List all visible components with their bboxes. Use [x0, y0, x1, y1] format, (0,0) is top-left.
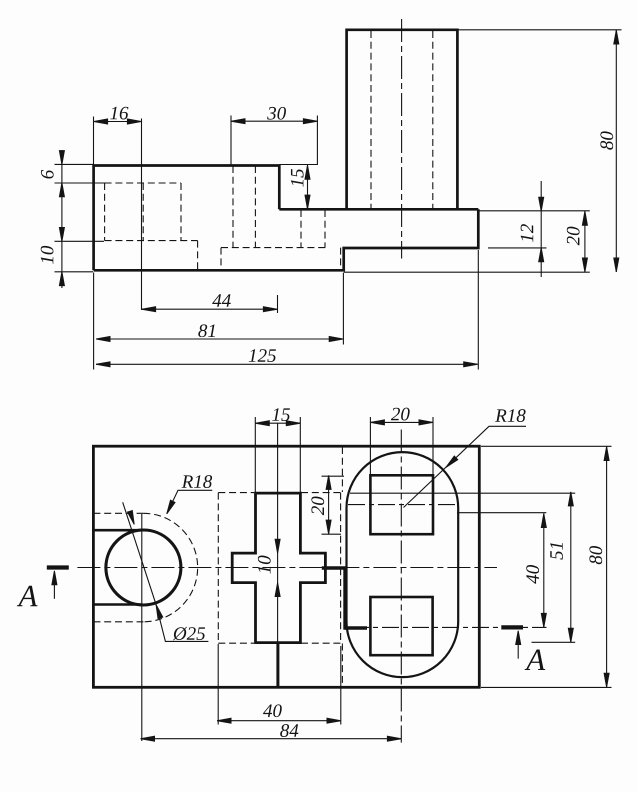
dim 10 arrows: [275, 539, 280, 553]
label 80 right: [600, 131, 613, 149]
section mark A left bar: [47, 565, 69, 569]
dim 80 plan line: [606, 446, 608, 687]
label R18 right: [495, 409, 525, 422]
label 44: [212, 294, 231, 307]
ext line 81 right: [342, 273, 344, 345]
ext line 30 right: [316, 116, 318, 166]
hidden line pocket right wall: [180, 183, 182, 241]
label 16: [110, 107, 128, 120]
front hidden pocket left dashed: [105, 31, 433, 270]
dim 51 line: [570, 492, 572, 643]
section bend vertical: [343, 568, 346, 630]
ext line left edge top: [93, 117, 95, 165]
hidden line step wall a: [300, 210, 302, 248]
hidden line pocket step: [197, 241, 199, 270]
ext 40 bottom left: [217, 644, 219, 725]
section bar 1: [322, 566, 347, 569]
label 51: [550, 543, 563, 560]
label 30: [267, 107, 286, 120]
ext line 81 125 left: [93, 273, 95, 370]
main horizontal centerline: [77, 567, 497, 569]
thin extension lines front: [55, 30, 622, 370]
ext line 6 top ref: [55, 163, 95, 165]
dimension 44: [142, 308, 278, 310]
plan outline: [93, 446, 479, 687]
ext line 6 bottom ref: [55, 182, 107, 184]
section mark A right bar: [501, 625, 523, 629]
hidden line column bore left: [370, 31, 372, 209]
obround vertical centerline: [400, 430, 402, 743]
dim 40 right line: [543, 513, 545, 627]
dim plan20 line: [328, 475, 330, 534]
ext 20 top right: [432, 417, 434, 475]
dimension 12: [540, 181, 542, 277]
circle dia 25: [106, 530, 181, 605]
ext line 30 left: [230, 116, 232, 166]
ext 51 top ref: [350, 492, 575, 494]
dim 40 bottom line: [217, 720, 341, 722]
circle vertical line: [141, 514, 143, 741]
column centerline: [401, 19, 403, 259]
dimension 81: [96, 338, 343, 340]
ext line base top ref: [479, 210, 590, 212]
dim 15 line: [255, 422, 300, 424]
ext 80 top ref: [481, 445, 612, 447]
ext 80 bottom ref: [481, 686, 612, 688]
plan texts: [17, 408, 602, 737]
dimension 6 and 10 line: [61, 150, 63, 288]
thin ext and dim lines plan: [141, 417, 612, 739]
label R18 left: [182, 475, 212, 488]
label 20 top plan: [391, 408, 410, 421]
slot opening bottom edge: [93, 603, 142, 606]
hidden line right step: [340, 248, 342, 270]
plan arrows: [256, 421, 270, 426]
label 6: [41, 170, 54, 179]
dimension 125: [96, 363, 478, 365]
label 12: [521, 224, 534, 242]
label 10 plan: [258, 556, 271, 574]
ext 15 right: [299, 417, 301, 492]
label 10: [41, 246, 54, 264]
hidden line slot wall a: [232, 166, 234, 248]
ext line 10 bottom ref: [55, 271, 94, 273]
ext line base bottom ref: [488, 247, 547, 249]
ext line 44 right: [277, 295, 279, 313]
ext 51 bottom ref: [532, 641, 576, 643]
front view visible outline: [94, 30, 479, 270]
ext line 80 top ref: [457, 29, 621, 31]
label 20 left plan: [311, 496, 324, 515]
section bar 2: [345, 626, 367, 629]
ext 15 left: [254, 417, 256, 492]
hidden line slot wall b: [254, 166, 256, 248]
ext 20 top left: [369, 417, 371, 475]
label 40 bottom: [263, 704, 282, 717]
ext plan20 top ref: [322, 475, 345, 477]
hidden line column bore right: [432, 31, 434, 209]
ext line body bottom ref: [344, 271, 590, 273]
hidden pocket rectangle dashed: [218, 447, 342, 687]
ext plan20 bottom ref: [322, 533, 342, 535]
ext 40 bottom right: [340, 646, 342, 725]
leader dia25: [123, 502, 209, 641]
ext line 125 right: [477, 250, 479, 370]
cross slot outline: [232, 493, 325, 642]
square1 centerline: [348, 504, 458, 506]
obround R18: [347, 452, 459, 677]
centerlines plan: [77, 423, 546, 743]
dimension 80 right: [615, 30, 617, 272]
label 80 plan: [589, 546, 602, 564]
hidden slot R18 outline: [93, 513, 197, 622]
label 81: [198, 324, 215, 337]
dimension 15 step: [307, 165, 309, 209]
hidden line pocket mid wall: [142, 183, 144, 241]
dimension 20 right: [584, 211, 586, 272]
label dia25: [173, 627, 205, 640]
label A right: [525, 650, 546, 670]
hidden line pocket top: [105, 182, 181, 184]
leader R18 left: [167, 490, 213, 514]
leader R18 right: [404, 426, 527, 507]
ext line 15 top ref: [279, 164, 317, 166]
label 20 right: [567, 227, 580, 246]
ext 40r top ref: [457, 512, 546, 514]
cross vertical line: [277, 423, 279, 643]
section A right arrow: [517, 635, 519, 659]
slot opening top edge: [93, 529, 142, 532]
front view texts: [41, 107, 614, 362]
label 15 front: [291, 169, 304, 187]
label 15 plan: [272, 408, 290, 421]
hidden line step wall b: [324, 210, 326, 248]
square hole 1: [370, 475, 433, 534]
dimension 30: [231, 120, 317, 122]
thick slot edge below cross: [276, 643, 279, 689]
square hole 2: [370, 597, 432, 655]
hidden line mid floor: [221, 247, 327, 249]
label A left: [17, 586, 38, 606]
hidden line mid wall left: [220, 248, 222, 270]
ext line 10 top ref: [55, 240, 105, 242]
label 125: [249, 349, 276, 362]
section A left arrow: [53, 575, 55, 599]
label 40 right: [526, 565, 539, 584]
hidden line pocket left wall: [104, 183, 106, 241]
hidden line pocket floor: [105, 240, 198, 242]
label 84: [280, 724, 298, 737]
dim 20 top line: [370, 421, 433, 423]
dim 84 line: [141, 738, 402, 740]
square2 centerline: [352, 626, 547, 628]
ext line x141.5: [141, 119, 143, 311]
dimension 16: [93, 121, 141, 123]
